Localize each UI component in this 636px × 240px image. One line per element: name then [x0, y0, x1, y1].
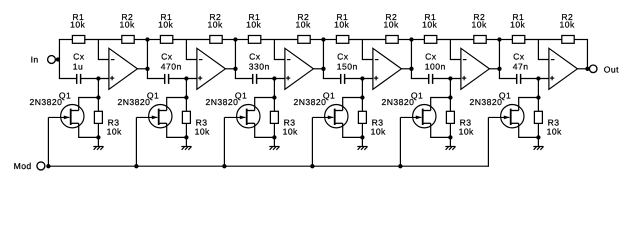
wire R3 to ground (stage 1) — [97, 123, 99, 146]
wire source to join (stage 3) — [255, 123, 275, 137]
node mod bus junction (stage 4) — [310, 164, 314, 168]
wire cap to non-inverting input (stage 3) — [257, 78, 285, 80]
node mod bus junction (stage 5) — [398, 164, 402, 168]
node op-amp output (stage 3) — [321, 67, 325, 71]
wire inverting input riser (stage 3) — [274, 40, 285, 60]
resistor R3 10k (stage 6) — [534, 111, 562, 136]
svg-text:Cx: Cx — [161, 52, 173, 62]
wire drain column (stage 3) — [255, 79, 275, 112]
wire top rail to R1 (stage 2) — [147, 39, 161, 41]
ground (stage 1) — [93, 147, 103, 150]
node plus/drain junction (stage 3) — [272, 76, 276, 80]
svg-text:10k: 10k — [158, 20, 173, 30]
svg-text:2N3820: 2N3820 — [294, 97, 327, 107]
wire output node vertical (stage 6) — [586, 40, 588, 69]
wire source to join (stage 2) — [167, 123, 187, 137]
node In junction — [56, 57, 60, 61]
wire mod riser (stage 4) — [311, 117, 313, 166]
wire R1 to R2 (stage 5) — [437, 39, 474, 41]
node source/R3 junction (stage 1) — [96, 135, 100, 139]
svg-text:10k: 10k — [384, 20, 399, 30]
wire cap line left (stage 5) — [411, 78, 429, 80]
node plus/drain junction (stage 5) — [448, 76, 452, 80]
svg-text:Cx: Cx — [513, 52, 525, 62]
wire source to join (stage 5) — [431, 123, 451, 137]
wire top rail to R1 (stage 3) — [235, 39, 249, 41]
capacitor Cx 1u (stage 1) — [73, 52, 85, 84]
svg-text:10k: 10k — [246, 20, 261, 30]
svg-text:10k: 10k — [547, 126, 562, 136]
node Mod junction — [46, 164, 50, 168]
wire mod riser (stage 1) — [47, 117, 49, 166]
wire inverting input riser (stage 4) — [362, 40, 373, 60]
wire inverting input riser (stage 5) — [450, 40, 461, 60]
resistor R2 10k (stage 4) — [384, 12, 399, 43]
node plus/drain junction (stage 2) — [184, 76, 188, 80]
node op-amp output (stage 4) — [409, 67, 413, 71]
node op-amp output (stage 6) — [585, 67, 589, 71]
wire drain column (stage 2) — [167, 79, 187, 112]
resistor R3 10k (stage 5) — [446, 111, 474, 136]
node drain jog junction (stage 4) — [360, 95, 364, 99]
svg-text:10k: 10k — [510, 20, 525, 30]
node drain jog junction (stage 1) — [96, 95, 100, 99]
wire source to join (stage 1) — [79, 123, 99, 137]
resistor R1 10k (stage 4) — [334, 12, 349, 43]
wire top rail to R1 (stage 6) — [499, 39, 513, 41]
wire R1 to R2 (stage 1) — [85, 39, 122, 41]
wire op-amp output stub (stage 4) — [401, 68, 411, 70]
wire op-amp output stub (stage 1) — [137, 68, 147, 70]
wire R2 to output node (stage 4) — [398, 39, 412, 41]
transistor Q1 2N3820 p-JFET (stage 1) — [30, 90, 85, 128]
terminal Out — [589, 65, 619, 75]
resistor R3 10k (stage 3) — [270, 111, 298, 136]
wire cap line left (stage 2) — [147, 78, 165, 80]
wire mod riser (stage 6) — [487, 117, 489, 166]
node source/R3 junction (stage 6) — [536, 135, 540, 139]
svg-text:470n: 470n — [161, 62, 182, 72]
svg-text:1u: 1u — [73, 62, 83, 72]
resistor R2 10k (stage 2) — [208, 12, 223, 43]
wire R2 to output node (stage 5) — [486, 39, 500, 41]
svg-text:2N3820: 2N3820 — [470, 97, 503, 107]
op-amp stage 4 — [373, 48, 402, 89]
svg-text:2N3820: 2N3820 — [206, 97, 239, 107]
ground (stage 3) — [269, 147, 279, 150]
wire R2 to output node (stage 3) — [310, 39, 324, 41]
svg-text:10k: 10k — [422, 20, 437, 30]
capacitor Cx 330n (stage 3) — [249, 52, 270, 84]
node op-amp output (stage 2) — [233, 67, 237, 71]
wire cap line left (stage 3) — [235, 78, 253, 80]
node mod bus junction (stage 2) — [134, 164, 138, 168]
wire top rail to R1 (stage 5) — [411, 39, 425, 41]
svg-text:10k: 10k — [70, 20, 85, 30]
wire R1 to R2 (stage 4) — [349, 39, 386, 41]
terminal Mod — [14, 161, 45, 171]
wire output node vertical (stage 4) — [410, 40, 412, 79]
wire cap to non-inverting input (stage 2) — [169, 78, 197, 80]
capacitor Cx 100n (stage 5) — [425, 52, 446, 84]
svg-text:Cx: Cx — [425, 52, 437, 62]
node top rail junction (stage 4) — [409, 37, 413, 41]
node plus/drain junction (stage 4) — [360, 76, 364, 80]
svg-text:10k: 10k — [459, 126, 474, 136]
wire cap line left (stage 4) — [323, 78, 341, 80]
node drain jog junction (stage 6) — [536, 95, 540, 99]
svg-text:150n: 150n — [337, 62, 358, 72]
transistor Q1 2N3820 p-JFET (stage 2) — [118, 90, 173, 128]
wire source to join (stage 6) — [519, 123, 539, 137]
svg-text:10k: 10k — [296, 20, 311, 30]
wire mod bus — [48, 165, 488, 167]
svg-text:330n: 330n — [249, 62, 270, 72]
svg-text:10k: 10k — [371, 126, 386, 136]
wire drain column (stage 4) — [343, 79, 363, 112]
svg-text:10k: 10k — [120, 20, 135, 30]
wire inverting input riser (stage 2) — [186, 40, 197, 60]
svg-text:In: In — [31, 54, 39, 64]
wire R1 to R2 (stage 6) — [525, 39, 562, 41]
wire output node vertical (stage 5) — [498, 40, 500, 79]
wire op-amp output stub (stage 2) — [225, 68, 235, 70]
wire output node vertical (stage 3) — [322, 40, 324, 79]
resistor R3 10k (stage 4) — [358, 111, 386, 136]
wire mod riser (stage 3) — [223, 117, 225, 166]
node op-amp output (stage 5) — [497, 67, 501, 71]
svg-text:10k: 10k — [472, 20, 487, 30]
capacitor Cx 470n (stage 2) — [161, 52, 182, 84]
wire R3 to ground (stage 4) — [361, 123, 363, 146]
ground (stage 2) — [181, 147, 191, 150]
svg-text:Mod: Mod — [14, 161, 32, 171]
wire R3 to ground (stage 2) — [185, 123, 187, 146]
wire R2 to output node (stage 6) — [574, 39, 588, 41]
wire cap to non-inverting input (stage 6) — [521, 78, 549, 80]
wire R2 to output node (stage 2) — [222, 39, 236, 41]
ground (stage 4) — [357, 147, 367, 150]
resistor R2 10k (stage 5) — [472, 12, 487, 43]
svg-text:10k: 10k — [560, 20, 575, 30]
node top rail junction (stage 2) — [233, 37, 237, 41]
node top rail junction (stage 5) — [497, 37, 501, 41]
op-amp stage 1 — [109, 48, 137, 89]
svg-text:10k: 10k — [334, 20, 349, 30]
svg-text:47n: 47n — [513, 62, 529, 72]
wire top rail to R1 (stage 4) — [323, 39, 337, 41]
node drain jog junction (stage 3) — [272, 95, 276, 99]
wire cap to non-inverting input (stage 4) — [345, 78, 373, 80]
transistor Q1 2N3820 p-JFET (stage 6) — [470, 90, 525, 128]
wire top rail to R1 (stage 1) — [59, 39, 73, 41]
wire source to join (stage 4) — [343, 123, 363, 137]
svg-text:Cx: Cx — [249, 52, 261, 62]
transistor Q1 2N3820 p-JFET (stage 4) — [294, 90, 348, 128]
transistor Q1 2N3820 p-JFET (stage 5) — [382, 90, 436, 128]
wire inverting input riser (stage 1) — [98, 40, 109, 60]
wire cap line left (stage 6) — [499, 78, 517, 80]
node drain jog junction (stage 5) — [448, 95, 452, 99]
wire op-amp output stub (stage 6) — [577, 68, 587, 70]
svg-text:Cx: Cx — [73, 52, 85, 62]
wire output node vertical (stage 1) — [146, 40, 148, 79]
wire op-amp output stub (stage 3) — [313, 68, 323, 70]
wire R3 to ground (stage 6) — [537, 123, 539, 146]
svg-text:10k: 10k — [283, 126, 298, 136]
svg-text:2N3820: 2N3820 — [118, 97, 151, 107]
node source/R3 junction (stage 3) — [272, 135, 276, 139]
resistor R1 10k (stage 3) — [246, 12, 261, 43]
ground (stage 6) — [533, 147, 543, 150]
svg-text:10k: 10k — [107, 126, 122, 136]
wire drain column (stage 5) — [431, 79, 451, 112]
wire inverting input riser (stage 6) — [538, 40, 549, 60]
node drain jog junction (stage 2) — [184, 95, 188, 99]
ground (stage 5) — [445, 147, 455, 150]
svg-text:10k: 10k — [208, 20, 223, 30]
wire mod riser (stage 5) — [399, 117, 401, 166]
svg-text:2N3820: 2N3820 — [382, 97, 415, 107]
wire to Out terminal — [587, 68, 589, 70]
svg-text:2N3820: 2N3820 — [30, 97, 63, 107]
resistor R2 10k (stage 1) — [120, 12, 135, 43]
capacitor Cx 150n (stage 4) — [337, 52, 358, 84]
op-amp stage 3 — [285, 48, 314, 89]
node op-amp output (stage 1) — [145, 67, 149, 71]
resistor R1 10k (stage 5) — [422, 12, 437, 43]
op-amp stage 6 — [549, 48, 578, 89]
resistor R2 10k (stage 6) — [560, 12, 575, 43]
wire drain column (stage 6) — [519, 79, 539, 112]
svg-text:Out: Out — [604, 65, 619, 75]
resistor R1 10k (stage 6) — [510, 12, 525, 43]
wire R3 to ground (stage 5) — [449, 123, 451, 146]
wire mod riser (stage 2) — [135, 117, 137, 166]
node source/R3 junction (stage 2) — [184, 135, 188, 139]
wire stage 1 input node vertical — [58, 40, 60, 79]
node plus/drain junction (stage 6) — [536, 76, 540, 80]
op-amp stage 5 — [461, 48, 490, 89]
wire R2 to output node (stage 1) — [134, 39, 148, 41]
wire op-amp output stub (stage 5) — [489, 68, 499, 70]
node source/R3 junction (stage 5) — [448, 135, 452, 139]
wire R1 to R2 (stage 2) — [173, 39, 210, 41]
wire cap to non-inverting input (stage 1) — [81, 78, 109, 80]
node mod bus junction (stage 3) — [222, 164, 226, 168]
wire R1 to R2 (stage 3) — [261, 39, 298, 41]
wire cap to non-inverting input (stage 5) — [433, 78, 461, 80]
resistor R3 10k (stage 1) — [94, 111, 122, 136]
wire output node vertical (stage 2) — [234, 40, 236, 79]
transistor Q1 2N3820 p-JFET (stage 3) — [206, 90, 261, 128]
wire drain column (stage 1) — [79, 79, 99, 112]
resistor R1 10k (stage 2) — [158, 12, 173, 43]
svg-text:100n: 100n — [425, 62, 446, 72]
wire R3 to ground (stage 3) — [273, 123, 275, 146]
node top rail junction (stage 1) — [145, 37, 149, 41]
resistor R3 10k (stage 2) — [182, 111, 210, 136]
svg-text:Cx: Cx — [337, 52, 349, 62]
capacitor Cx 47n (stage 6) — [513, 52, 529, 84]
svg-text:10k: 10k — [195, 126, 210, 136]
node plus/drain junction (stage 1) — [96, 76, 100, 80]
wire cap line left (stage 1) — [59, 78, 77, 80]
op-amp stage 2 — [197, 48, 226, 89]
resistor R1 10k (stage 1) — [70, 12, 85, 43]
resistor R2 10k (stage 3) — [296, 12, 311, 43]
node top rail junction (stage 3) — [321, 37, 325, 41]
terminal In — [31, 54, 56, 64]
node source/R3 junction (stage 4) — [360, 135, 364, 139]
